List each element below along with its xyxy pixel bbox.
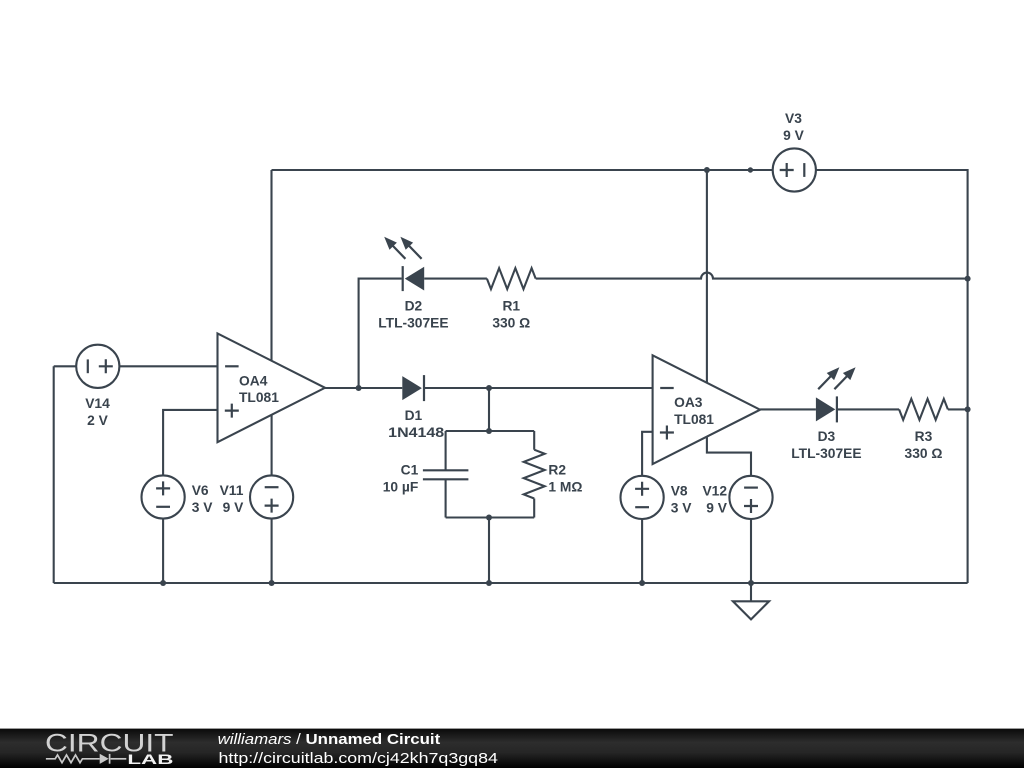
svg-text:OA4: OA4 — [239, 373, 268, 388]
svg-text:williamars / Unnamed Circuit: williamars / Unnamed Circuit — [218, 732, 441, 748]
logo resistor-diode doodle — [46, 754, 126, 764]
node wire end dot left of V3 — [748, 167, 753, 172]
wire D1 to OA3 inverting input — [424, 387, 653, 389]
svg-text:C1: C1 — [401, 462, 419, 477]
svg-text:10 µF: 10 µF — [383, 479, 419, 494]
LED D3 arrow 1 — [834, 374, 848, 389]
capacitor C1 plates — [423, 470, 469, 479]
svg-text:D1: D1 — [405, 408, 423, 423]
wire OA3 V- pin jog down to V12 — [707, 437, 751, 476]
wire RC box top rail — [446, 430, 535, 432]
svg-text:9 V: 9 V — [223, 500, 245, 515]
wire V6 to bottom rail — [162, 519, 164, 584]
svg-text:TL081: TL081 — [239, 390, 279, 405]
svg-text:D2: D2 — [405, 299, 423, 314]
voltage source V12 9V — [729, 476, 772, 519]
wire D3 to R3 — [837, 408, 899, 410]
resistor R2 1Mohm zigzag — [524, 450, 545, 499]
wire down from node to RC box — [488, 388, 490, 431]
wire D2 to R1 — [424, 278, 487, 280]
voltage source V8 3V — [621, 476, 664, 519]
svg-text:330 Ω: 330 Ω — [492, 315, 530, 330]
svg-text:2 V: 2 V — [87, 413, 109, 428]
voltage source V6 3V — [142, 475, 185, 518]
wire V12 to bottom rail — [750, 519, 752, 583]
resistor R1 330 ohm zigzag — [487, 268, 536, 289]
voltage source V14 2V — [76, 345, 119, 388]
junction RC box top — [486, 428, 492, 434]
resistor R2 bottom lead — [533, 499, 535, 518]
svg-text:V3: V3 — [785, 111, 802, 126]
wire OA3 output to D3 — [760, 408, 816, 410]
op-amp OA4 plus sign — [225, 404, 239, 418]
svg-text:http://circuitlab.com/cj42kh7q: http://circuitlab.com/cj42kh7q3gq84 — [219, 751, 498, 767]
svg-text:330 Ω: 330 Ω — [905, 446, 943, 461]
capacitor C1 top lead — [445, 431, 447, 470]
op-amp OA4 minus sign — [225, 365, 239, 367]
node D1 output / RC branch junction — [486, 385, 492, 391]
op-amp OA3 plus sign — [660, 426, 674, 440]
svg-text:LTL-307EE: LTL-307EE — [791, 446, 861, 461]
svg-text:OA3: OA3 — [674, 395, 703, 410]
svg-text:V14: V14 — [85, 396, 110, 411]
wire R1 to right rail with hop over OA3 V+ wire — [536, 273, 968, 279]
svg-text:V8: V8 — [671, 483, 688, 498]
LED D2 triangle — [405, 267, 424, 291]
op-amp OA3 minus sign — [660, 387, 674, 389]
diode D1 triangle — [402, 376, 422, 400]
svg-text:V11: V11 — [220, 483, 244, 498]
wire OA4 V- pin down to V11 — [271, 415, 273, 476]
op-amp OA3 triangle — [653, 355, 761, 464]
wire OA3 plus input jog to V8 — [642, 432, 653, 476]
wire V11 to bottom rail — [271, 519, 273, 584]
LED D2 cathode bar — [402, 266, 404, 291]
diode D1 cathode bar — [423, 375, 425, 401]
junction V6/bottom rail — [160, 580, 166, 586]
junction V12/ground/bottom rail — [748, 580, 754, 586]
wire top rail from OA4 V+ to V3 — [272, 169, 773, 171]
LED D3 cathode bar — [836, 396, 838, 422]
ground symbol — [750, 583, 752, 601]
wire OA3 V+ pin up to top rail — [706, 170, 708, 383]
svg-text:9 V: 9 V — [783, 128, 805, 143]
svg-text:V12: V12 — [702, 483, 727, 498]
junction top rail / OA3 V+ branch — [704, 167, 710, 173]
wire RC box bottom rail — [446, 516, 535, 518]
resistor R2 top lead — [533, 431, 535, 450]
junction R1 wire / right rail — [965, 276, 971, 282]
LED D2 arrow 2 — [407, 244, 421, 259]
wire V8 to bottom rail — [641, 519, 643, 583]
LED D2 arrow 1 — [391, 244, 405, 259]
op-amp OA4 triangle — [218, 333, 326, 442]
wire left rail — [53, 366, 55, 583]
wire bottom rail — [54, 582, 968, 584]
svg-text:D3: D3 — [818, 429, 836, 444]
wire branch up to D2 — [359, 279, 402, 388]
node OA4 output / D2 branch junction — [356, 385, 362, 391]
capacitor C1 bottom lead — [445, 479, 447, 517]
logo diode triangle — [100, 754, 109, 764]
svg-text:3 V: 3 V — [671, 500, 693, 515]
junction V11/bottom rail — [269, 580, 275, 586]
wire V14 to OA4 inverting input — [119, 365, 217, 367]
resistor R3 330 ohm zigzag — [899, 399, 948, 420]
wire OA4 plus input jog to V6 — [163, 410, 217, 476]
svg-text:V6: V6 — [192, 483, 209, 498]
svg-text:LTL-307EE: LTL-307EE — [378, 315, 448, 330]
wire R3 to right rail — [948, 408, 968, 410]
wire V3 right to top-right corner and right rail down — [816, 170, 968, 583]
junction RC branch / bottom rail — [486, 580, 492, 586]
LED D3 triangle — [816, 397, 835, 421]
wire OA4 output to D1 — [325, 387, 402, 389]
LED D3 arrow 2 — [818, 374, 832, 389]
svg-text:TL081: TL081 — [674, 412, 714, 427]
footer bar — [0, 729, 1024, 768]
voltage source V3 9V — [773, 148, 816, 191]
junction R3 / right rail — [965, 406, 971, 412]
svg-text:R3: R3 — [915, 429, 933, 444]
wire RC box to bottom rail — [488, 518, 490, 584]
svg-text:1N4148: 1N4148 — [388, 425, 444, 440]
wire left rail to V14 — [54, 365, 77, 367]
svg-text:R1: R1 — [502, 299, 520, 314]
svg-text:3 V: 3 V — [192, 500, 214, 515]
svg-text:LAB: LAB — [127, 752, 173, 768]
junction RC box bottom — [486, 515, 492, 521]
voltage source V11 9V — [250, 475, 293, 518]
wire OA4 V+ pin up to top rail — [270, 170, 272, 361]
svg-text:R2: R2 — [548, 462, 566, 477]
svg-text:9 V: 9 V — [706, 500, 728, 515]
svg-text:1 MΩ: 1 MΩ — [548, 479, 582, 494]
junction V8/bottom rail — [639, 580, 645, 586]
